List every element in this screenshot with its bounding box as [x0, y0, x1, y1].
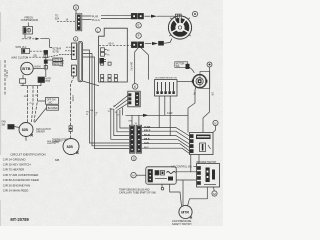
wire label 14-BK [71, 95, 73, 102]
svg-text:CIR 14 MAIN FEED: CIR 14 MAIN FEED [3, 189, 29, 193]
wire [158, 96, 160, 128]
wire down to pressure sw [182, 180, 184, 206]
terminal sq [101, 62, 104, 65]
connector chain J3 [44, 60, 47, 64]
svg-text:CIR 15 KEY SWITCH: CIR 15 KEY SWITCH [3, 163, 31, 167]
connector P1 [76, 14, 82, 31]
node M [212, 191, 217, 196]
label 36-4 [130, 62, 133, 71]
wire arrow [145, 43, 152, 45]
svg-text:CIR 14: CIR 14 [5, 70, 8, 78]
connector pair D2 [131, 42, 143, 48]
wire [27, 23, 29, 27]
node J [74, 37, 78, 41]
heater WTR HTR [38, 77, 45, 83]
svg-text:(LOW): (LOW) [52, 142, 59, 144]
thermo switch block S1 [146, 167, 176, 184]
wire 80-U dashed [99, 44, 131, 46]
wire dashed to junction [30, 50, 44, 52]
wire labels [60, 60, 65, 67]
wire right block down [188, 187, 208, 206]
motor label [175, 62, 195, 73]
wire [22, 75, 24, 79]
svg-text:E: E [138, 24, 140, 28]
wire [164, 96, 166, 115]
svg-text:MT-20789: MT-20789 [10, 217, 29, 222]
wire [136, 174, 146, 176]
wire [24, 34, 26, 39]
wire pair2 to resistor [141, 48, 149, 80]
svg-text:82B: 82B [67, 145, 74, 149]
wire 82TB-R in [66, 46, 72, 48]
motor frame [200, 72, 210, 89]
node labels 82TB-R / 82TB [53, 47, 62, 53]
wire [25, 137, 27, 141]
svg-text:82B: 82B [55, 159, 60, 162]
connector bar A2 [78, 42, 83, 82]
svg-text:14-R: 14-R [144, 142, 149, 145]
node N [213, 120, 218, 125]
blower connector face B1 [168, 16, 191, 39]
wire left block down [170, 184, 182, 206]
wire leader [48, 59, 53, 61]
terminal sq [108, 62, 111, 65]
wire drop1 [120, 110, 129, 128]
svg-text:CIR 77 AIR CONDITIONER: CIR 77 AIR CONDITIONER [3, 173, 39, 177]
svg-text:PU-LG: PU-LG [92, 19, 100, 22]
terminal row2 [101, 79, 118, 82]
svg-text:80-U: 80-U [109, 42, 114, 45]
wire strand B [32, 86, 34, 122]
svg-text:82B: 82B [24, 96, 28, 98]
svg-text:36-4 PU: 36-4 PU [130, 62, 133, 71]
wire diag feeds [114, 95, 129, 110]
compressor C1 [23, 27, 33, 35]
node E [136, 23, 141, 28]
svg-text:82B: 82B [22, 128, 29, 132]
wire 82TB in [65, 50, 72, 52]
wire relay to blocks [190, 155, 192, 172]
ac switch block S2 [197, 164, 220, 188]
svg-text:82B-R: 82B-R [144, 130, 151, 132]
svg-text:14-R: 14-R [167, 112, 173, 115]
harness wires to relay [142, 128, 190, 136]
blower resistor box [155, 77, 178, 96]
connector M [8, 125, 14, 130]
switch fan clutch [19, 123, 33, 137]
svg-text:F: F [138, 34, 140, 38]
connector cluster [100, 48, 111, 64]
svg-text:W/L: W/L [176, 66, 181, 68]
connector bar A1b [72, 65, 77, 76]
wire drop4 [111, 109, 130, 140]
wire to node K [135, 48, 139, 84]
wire leader [38, 100, 46, 102]
relay K1 [190, 133, 214, 155]
terminal row1 [101, 75, 118, 78]
node V [73, 5, 78, 10]
wire [40, 83, 42, 86]
svg-text:CIR 14 GROUND: CIR 14 GROUND [3, 157, 26, 161]
wire 82A dashed [22, 38, 35, 40]
wire between blocks [176, 171, 196, 173]
compressor label [21, 16, 39, 22]
svg-text:MAG CLUTCH: MAG CLUTCH [12, 56, 29, 59]
wire hook3 [83, 57, 130, 149]
wire diag [83, 81, 99, 86]
connector nub [186, 64, 190, 69]
svg-text:BTB: BTB [22, 66, 30, 71]
svg-text:75-BK: 75-BK [144, 126, 151, 128]
svg-text:82B: 82B [60, 65, 64, 67]
svg-text:DB-R: DB-R [144, 139, 150, 141]
svg-text:A/C: A/C [49, 102, 53, 105]
svg-text:82A: 82A [55, 17, 60, 20]
svg-text:W: W [114, 106, 116, 108]
node H [131, 173, 136, 178]
wire [101, 15, 131, 17]
label fan clutch driver [36, 128, 62, 145]
thermostat label [52, 139, 68, 162]
wire [213, 187, 216, 191]
wire leader [14, 127, 19, 128]
svg-text:COMPRESSOR: COMPRESSOR [21, 19, 39, 22]
wire DB dashed [26, 56, 44, 58]
svg-text:OFF ON: OFF ON [47, 100, 56, 102]
wire PU-R [82, 15, 92, 17]
wire [138, 115, 140, 125]
svg-text:PU: PU [192, 92, 194, 96]
connector chain J1 [44, 50, 48, 53]
svg-text:CIR 75 HEATER: CIR 75 HEATER [3, 168, 24, 172]
svg-text:W: W [39, 78, 42, 82]
svg-text:CAPILLARY TUBE (PART OF SW): CAPILLARY TUBE (PART OF SW) [119, 192, 156, 195]
switch BLOWER [47, 105, 59, 110]
wire TO 82A dashed [57, 20, 76, 22]
capillary label [119, 189, 156, 195]
svg-text:14-BK: 14-BK [71, 95, 73, 102]
pressure switch MTR [179, 205, 192, 218]
wire [22, 83, 24, 86]
wire 14-R top [122, 108, 124, 116]
wire [101, 18, 131, 20]
label box 82TB-R [53, 58, 63, 62]
svg-text:CIR 20 ENGINE FAN: CIR 20 ENGINE FAN [3, 183, 30, 187]
svg-text:82A: 82A [28, 36, 32, 39]
connector chain J2 [44, 54, 48, 57]
wire motor down left [188, 87, 196, 132]
valve WTR VLV label [16, 46, 27, 49]
inline connector [69, 126, 72, 132]
motor M1 [192, 75, 208, 88]
wire [75, 10, 77, 14]
svg-text:MTR: MTR [181, 211, 189, 215]
wire drop2 [117, 110, 129, 132]
wire strand A [27, 86, 29, 122]
svg-text:FAN: FAN [2, 121, 7, 124]
wire motor to box [177, 81, 193, 83]
legend [3, 152, 46, 222]
wire [213, 126, 216, 133]
wire motor right [203, 67, 210, 133]
node F [136, 33, 141, 38]
wire [131, 115, 133, 125]
svg-text:W: W [86, 114, 88, 116]
svg-text:HIGH: HIGH [35, 65, 41, 68]
wire DB in [48, 55, 72, 58]
node G [131, 156, 136, 161]
wire corner [40, 39, 52, 48]
net CIR14 left vertical [4, 60, 6, 95]
svg-text:CIR 80 ACCESSORY FEED: CIR 80 ACCESSORY FEED [3, 178, 39, 182]
connector stub [159, 39, 173, 46]
main harness connector C2 [136, 125, 141, 153]
svg-text:DB: DB [34, 55, 38, 57]
svg-text:BLOWER: BLOWER [48, 108, 58, 110]
svg-text:FAN CLUTCH: FAN CLUTCH [36, 128, 51, 131]
svg-text:CIRCUIT IDENTIFICATION: CIRCUIT IDENTIFICATION [10, 152, 45, 156]
svg-text:OR: OR [211, 92, 213, 96]
node L [96, 28, 101, 33]
wire leader [35, 108, 47, 123]
thermostat switch T1 [63, 139, 79, 155]
switch OFF-ON-A/C [46, 98, 59, 105]
svg-text:82TB: 82TB [53, 51, 59, 54]
svg-text:PU-W: PU-W [144, 134, 151, 136]
wire hook1 [83, 50, 130, 143]
switch BTB [21, 62, 33, 74]
wire strand C [34, 86, 38, 123]
connector chain J4 [44, 65, 47, 69]
pressure switch label [172, 220, 192, 226]
svg-text:36-Y: 36-Y [144, 147, 149, 149]
connector bar A1 [72, 43, 77, 59]
node B [207, 62, 212, 67]
connector pair D1 [131, 13, 143, 19]
control head outline [99, 28, 128, 82]
valve WTR VLV [22, 49, 30, 54]
svg-text:BLOWER RESISTOR: BLOWER RESISTOR [156, 77, 178, 79]
wire drop3 [114, 109, 130, 136]
main harness connector C1 [129, 125, 134, 153]
wire arrow [145, 15, 151, 17]
svg-text:H: H [132, 174, 134, 178]
wire [33, 68, 44, 70]
capillary tail [161, 184, 163, 187]
label box 82TB [53, 62, 63, 66]
wire rail [20, 85, 41, 87]
wire thermo feed [71, 76, 74, 138]
node dot [192, 11, 197, 16]
connector tab [175, 14, 181, 18]
svg-text:HTR: HTR [46, 81, 51, 83]
connector [20, 79, 26, 83]
ac control sw label [171, 162, 216, 169]
svg-text:SAFETY SWITCH: SAFETY SWITCH [172, 223, 192, 226]
wire [45, 54, 47, 77]
node K [132, 84, 138, 90]
resistor block R1 [128, 91, 140, 107]
svg-text:N: N [214, 121, 216, 125]
mag clutch label [12, 56, 29, 59]
wire PU-LG [82, 19, 92, 21]
wire hook2 [83, 54, 130, 146]
svg-text:DRIVER: DRIVER [36, 132, 45, 134]
clutch switch label [2, 121, 7, 127]
